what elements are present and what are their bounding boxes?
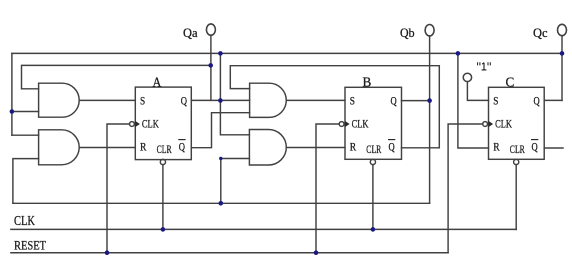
wire B gate2 output to R of B: [286, 147, 345, 149]
junction feedback line / B gate2 drop: [219, 201, 224, 206]
wire rail left drop to A gates: [11, 53, 13, 135]
junction B gate2 corner: [219, 157, 222, 160]
svg-text:S: S: [493, 93, 498, 107]
pin C CLK edge triangle: [488, 121, 493, 127]
wire long feedback line y203: [13, 202, 430, 204]
wire inner feedback line B (Qb-bar to gate1 top): [230, 66, 439, 89]
wire A gate1 output to S of A: [79, 99, 135, 101]
wire B CLK input: [316, 124, 339, 253]
wire inner feedback line A (Qa to gate1 top): [22, 65, 211, 88]
svg-text:CLK: CLK: [142, 117, 159, 131]
junction top rail / Qc vertical: [560, 51, 565, 56]
svg-text:RESET: RESET: [14, 239, 46, 253]
wire A gate2 output to R of A: [79, 147, 135, 149]
svg-text:Q: Q: [181, 93, 187, 107]
flip-flop A CLK bubble: [130, 122, 135, 127]
svg-text:R: R: [493, 140, 499, 154]
svg-text:CLR: CLR: [157, 142, 172, 156]
svg-text:Q: Q: [532, 140, 538, 154]
flip-flop C CLK bubble: [483, 122, 488, 127]
svg-text:CLR: CLR: [366, 142, 381, 156]
wire A gate2 bottom input from Qb-bar feedback: [13, 159, 39, 204]
wire A Qbar jog to B gate1 bottom input: [191, 113, 249, 148]
wire B gate2 bottom input drop: [221, 159, 250, 204]
wire B Qbar output: [402, 147, 440, 149]
wire B CLR drop: [372, 165, 374, 230]
node label constant "1": [478, 62, 491, 70]
flip-flop B body: [345, 87, 402, 159]
wire B gate1 output to S of B: [286, 99, 345, 101]
flip-flop B CLK bubble: [339, 122, 344, 127]
wire C R input from rail: [458, 53, 489, 148]
svg-text:Qa: Qa: [183, 26, 198, 40]
wire RESET rail: [11, 252, 448, 254]
flip-flop C CLR bubble: [514, 159, 519, 164]
AND gate G4 (feeds R of B): [249, 130, 286, 166]
wire C Q output: [544, 99, 562, 101]
wire C Qbar stub: [544, 147, 563, 149]
svg-text:R: R: [350, 140, 356, 154]
wire Qa vertical: [210, 35, 212, 100]
pin B CLK edge triangle: [345, 121, 350, 127]
svg-text:Qc: Qc: [533, 26, 548, 40]
svg-text:Q: Q: [389, 140, 395, 154]
junction top rail / B gate2 drop: [218, 51, 223, 56]
junction B Q line / Qb vertical: [427, 98, 432, 103]
wire B Q output: [402, 100, 430, 102]
flip-flop B CLR bubble: [370, 159, 375, 164]
AND gate G3 (feeds S of B): [250, 83, 287, 117]
wire A CLR drop: [162, 165, 164, 230]
svg-text:C: C: [506, 76, 515, 91]
wire Qc vertical: [561, 36, 563, 101]
flip-flop A CLR bubble: [160, 159, 165, 164]
wire Qb vertical down to feedback line: [429, 36, 431, 203]
wire A gate1 bottom input stub: [12, 111, 39, 113]
svg-text:CLK: CLK: [352, 117, 369, 131]
svg-text:CLK: CLK: [14, 213, 35, 228]
svg-text:S: S: [140, 93, 145, 107]
junction CLK rail / B CLR: [371, 227, 376, 232]
svg-text:Qb: Qb: [400, 26, 415, 40]
junction CLK rail / A CLR: [161, 227, 166, 232]
wire B Qbar right drop: [438, 66, 440, 148]
flip-flop A body: [135, 87, 191, 160]
svg-text:S: S: [350, 93, 355, 107]
junction RESET rail / B CLK: [314, 250, 319, 255]
wire A gate2 top input stub: [12, 134, 39, 136]
node constant 1 terminal: [463, 73, 471, 81]
node Qc terminal: [558, 24, 567, 35]
svg-text:A: A: [153, 76, 163, 91]
wire CLK rail: [11, 228, 516, 230]
svg-text:CLK: CLK: [495, 117, 512, 131]
svg-text:R: R: [140, 140, 146, 154]
junction inner line / Qa vertical: [208, 63, 213, 68]
AND gate G1 (feeds S of A): [39, 83, 80, 117]
node Qa terminal: [206, 24, 215, 35]
svg-text:Q: Q: [534, 93, 540, 107]
wire A Q output to B gate1 middle input: [191, 99, 249, 101]
junction top rail / C R drop: [456, 51, 461, 56]
junction RESET rail / A CLK: [105, 250, 110, 255]
junction left drop / A gate1 bottom: [10, 109, 15, 114]
svg-text:Q: Q: [179, 140, 185, 154]
AND gate G2 (feeds R of A): [39, 130, 80, 165]
node Qb terminal: [425, 25, 434, 36]
wire C CLR drop: [515, 165, 517, 230]
svg-text:B: B: [363, 76, 372, 91]
wire rail mid drop to B gate2 top: [220, 53, 249, 134]
wire A CLK input: [107, 124, 130, 253]
wire top rail Qc net: [12, 52, 562, 54]
svg-text:CLR: CLR: [510, 142, 525, 156]
junction A Q line / rail drop: [218, 98, 223, 103]
svg-text:Q: Q: [391, 93, 397, 107]
wire constant 1 to S of C: [467, 82, 488, 101]
wire C CLK input: [448, 124, 483, 253]
flip-flop C body: [489, 87, 545, 159]
pin A CLK edge triangle: [135, 121, 140, 127]
